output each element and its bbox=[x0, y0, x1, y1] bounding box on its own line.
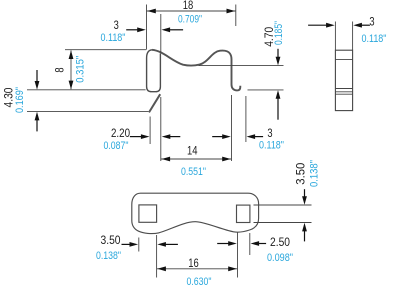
svg-text:0.087": 0.087" bbox=[104, 140, 129, 152]
svg-text:0.709": 0.709" bbox=[178, 13, 202, 25]
svg-text:0.118": 0.118" bbox=[259, 140, 284, 152]
svg-text:16: 16 bbox=[188, 258, 199, 270]
svg-text:3.50: 3.50 bbox=[296, 163, 308, 185]
svg-text:0.138": 0.138" bbox=[308, 160, 320, 187]
svg-text:0.169": 0.169" bbox=[14, 87, 26, 113]
svg-text:0.185": 0.185" bbox=[273, 21, 285, 45]
svg-text:14: 14 bbox=[187, 146, 198, 158]
svg-text:0.551": 0.551" bbox=[181, 166, 206, 178]
svg-text:3: 3 bbox=[114, 20, 119, 32]
svg-text:2.20: 2.20 bbox=[111, 128, 130, 140]
svg-text:0.138": 0.138" bbox=[96, 250, 121, 262]
svg-text:0.315": 0.315" bbox=[74, 56, 86, 83]
svg-text:3: 3 bbox=[369, 17, 374, 29]
svg-text:0.118": 0.118" bbox=[362, 33, 387, 45]
svg-text:3: 3 bbox=[267, 128, 272, 140]
svg-text:8: 8 bbox=[55, 67, 67, 72]
svg-text:0.098": 0.098" bbox=[267, 252, 293, 264]
svg-text:0.630": 0.630" bbox=[187, 276, 212, 288]
svg-text:3.50: 3.50 bbox=[101, 235, 121, 247]
svg-text:2.50: 2.50 bbox=[270, 237, 290, 249]
svg-text:18: 18 bbox=[183, 0, 194, 12]
svg-text:0.118": 0.118" bbox=[101, 32, 126, 44]
